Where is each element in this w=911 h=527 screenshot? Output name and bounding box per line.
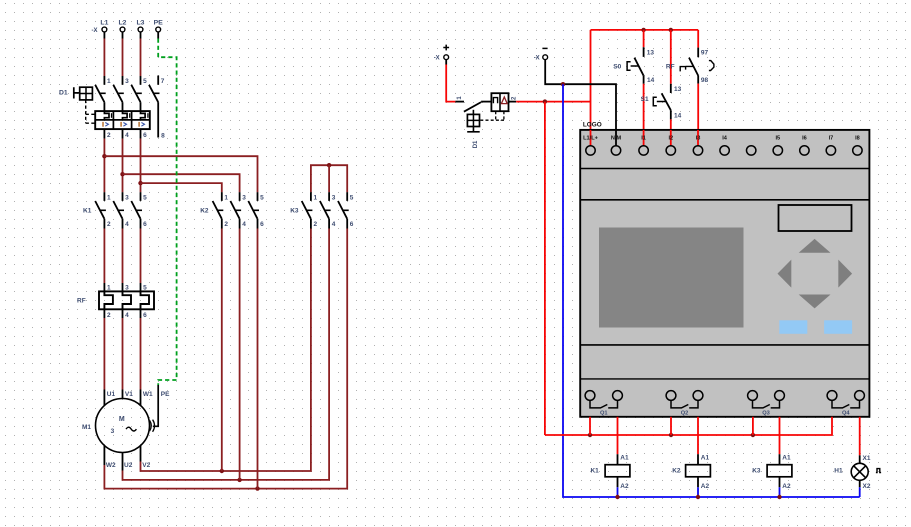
wire K2 pole6 drop: [257, 229, 259, 489]
wire Q3 common drop: [752, 417, 754, 435]
junction L3 tap: [138, 181, 142, 185]
svg-text:PE: PE: [154, 20, 164, 27]
wire L2 tap to K2 pole 3: [123, 174, 240, 192]
wire K2 pole4 drop: [239, 229, 241, 480]
overload RF pin 1: [104, 283, 111, 292]
contactor K2 contact pole 3-4: [230, 192, 246, 228]
motor M1 terminal PE: [161, 391, 170, 398]
wire - to N/M: [545, 60, 616, 146]
svg-text:K2: K2: [200, 207, 209, 214]
junction K2 return: [696, 495, 700, 499]
svg-text:I1: I1: [641, 136, 646, 142]
junction L1 tap: [102, 154, 106, 158]
contactor K1 label: [83, 207, 92, 214]
wire star bridge over K3: [311, 165, 347, 192]
wire K1 to RF pole 3: [122, 229, 124, 284]
svg-text:A2: A2: [782, 483, 791, 490]
junction V2-K2: [220, 469, 224, 473]
svg-text:RF: RF: [77, 298, 86, 305]
pushbutton S1: [641, 86, 682, 120]
junction W2-K2: [255, 486, 259, 490]
svg-text:3: 3: [242, 194, 246, 201]
mechanical link D1 aux: [480, 111, 504, 120]
junction Q3 common: [751, 433, 755, 437]
overload RF heater element: [104, 291, 113, 309]
svg-text:6: 6: [143, 221, 147, 228]
svg-text:L3: L3: [137, 20, 145, 27]
wire control top bus: [591, 29, 699, 31]
label LOGO: [583, 122, 602, 129]
wire H1 lamp return: [859, 480, 861, 497]
svg-text:14: 14: [647, 77, 655, 84]
svg-text:5: 5: [143, 194, 147, 201]
contactor K1 contact pole 1-2: [95, 192, 111, 228]
wire S1 to I2: [670, 119, 672, 146]
svg-text:5: 5: [260, 194, 264, 201]
PLC cursor key right: [838, 260, 852, 288]
svg-text:A1: A1: [701, 455, 710, 462]
pushbutton S0: [613, 49, 654, 83]
overload relay RF box: [99, 291, 154, 309]
breaker D1 pin 6: [141, 129, 148, 139]
wire + to D1 aux: [446, 60, 455, 102]
svg-text:K3: K3: [752, 468, 761, 475]
breaker D1 pin 2: [104, 129, 111, 139]
breaker D1 contact pole 5: [131, 78, 147, 111]
wire L3 to D1: [140, 32, 142, 85]
svg-text:1: 1: [314, 194, 318, 201]
junction K3 return: [777, 495, 781, 499]
wire L1/L+ riser: [590, 30, 592, 146]
svg-text:A2: A2: [620, 483, 629, 490]
junction control feed: [543, 99, 547, 103]
motor M1 terminal U2: [123, 453, 133, 471]
breaker D1 aux mechanism: [467, 110, 480, 132]
wire K3 coil feed: [779, 417, 781, 465]
svg-text:3: 3: [125, 78, 129, 85]
breaker D1 contact pole 1: [95, 78, 111, 111]
PLC relay output Q3: [748, 391, 785, 417]
svg-text:I8: I8: [855, 136, 860, 142]
svg-text:97: 97: [701, 50, 709, 57]
motor M1 terminal W1: [141, 390, 154, 406]
breaker D1 contact pole 3: [113, 78, 129, 111]
wire W2 to K2/K3: [104, 229, 347, 489]
wire bus to RF contact: [697, 30, 699, 57]
wire PE (green dashed): [158, 32, 176, 385]
svg-text:6: 6: [143, 132, 147, 139]
svg-text:H1: H1: [834, 468, 843, 475]
svg-text:I2: I2: [668, 136, 673, 142]
svg-text:4: 4: [125, 132, 129, 139]
PLC ESC key: [779, 320, 807, 334]
svg-text:2: 2: [107, 221, 111, 228]
motor M1 terminal U1: [104, 390, 115, 406]
PLC relay output Q1: [585, 391, 622, 417]
wire output bus (red): [545, 417, 832, 435]
svg-text:W1: W1: [143, 391, 153, 398]
svg-text:1: 1: [107, 78, 111, 85]
breaker D1 aux trip box: [491, 93, 508, 111]
wire RF to motor 2: [103, 318, 105, 390]
svg-text:3: 3: [125, 194, 129, 201]
PLC cursor key left: [778, 260, 792, 288]
contactor coil K3: [752, 455, 792, 491]
svg-text:L1/L+: L1/L+: [583, 136, 598, 142]
svg-text:5: 5: [350, 194, 354, 201]
wire Q2 common drop: [670, 417, 672, 435]
PLC relay output Q2: [666, 391, 703, 417]
svg-text:3: 3: [332, 194, 336, 201]
motor M1 body: [96, 399, 150, 453]
svg-text:S1: S1: [641, 96, 649, 103]
svg-text:Q1: Q1: [600, 410, 608, 416]
overload RF heater element: [123, 291, 132, 309]
wire U2 to K2/K3: [123, 229, 330, 480]
svg-text:I6: I6: [802, 136, 807, 142]
PLC cursor key down: [799, 295, 831, 309]
overload RF pin 2: [104, 309, 111, 319]
svg-text:Q3: Q3: [762, 410, 770, 416]
svg-text:L2: L2: [119, 20, 127, 27]
label -X (left feeder): [92, 28, 98, 34]
wire K1 to RF pole 1: [103, 229, 105, 284]
contactor K1 contact pole 3-4: [113, 192, 129, 228]
svg-text:RF: RF: [666, 64, 675, 71]
svg-text:LOGO: LOGO: [583, 122, 602, 129]
wire K3 coil return: [779, 477, 781, 497]
wire M drop (blue): [563, 84, 860, 497]
svg-text:1: 1: [224, 194, 228, 201]
wire L3 tap to K2 pole 1: [141, 183, 222, 192]
wire L1 to D1: [103, 32, 105, 85]
breaker D1 auxiliary contact: [455, 96, 491, 112]
wire S0 to I1: [643, 84, 645, 146]
svg-text:M1: M1: [82, 424, 91, 431]
PLC LCD display: [599, 228, 744, 328]
svg-text:X1: X1: [863, 455, 871, 462]
junction S0 branch: [641, 28, 645, 32]
svg-text:K1: K1: [590, 468, 599, 475]
svg-text:A1: A1: [620, 455, 629, 462]
svg-text:6: 6: [143, 312, 147, 319]
overload RF NO contact 97-98: [666, 50, 714, 84]
contactor K3 contact pole 3-4: [320, 192, 336, 228]
overload RF heater element: [141, 291, 150, 309]
svg-text:S0: S0: [613, 64, 621, 71]
wire K2 coil return: [697, 477, 699, 497]
lamp H1: [834, 455, 881, 490]
label D1 (aux): [473, 140, 479, 148]
PLC label window: [779, 205, 852, 231]
wire RF to I3: [697, 84, 699, 146]
wire K1 to RF pole 5: [140, 229, 142, 284]
svg-text:13: 13: [674, 86, 682, 93]
svg-text:M: M: [119, 416, 125, 423]
contactor K2 contact pole 1-2: [213, 192, 229, 228]
svg-text:14: 14: [674, 113, 682, 120]
junction K1 return: [615, 495, 619, 499]
motor M1 terminal V1: [123, 390, 134, 399]
PLC LOGO module body: [580, 130, 869, 417]
overload RF pin 3: [123, 283, 130, 292]
contactor K3 contact pole 5-6: [338, 192, 354, 228]
svg-text:D1: D1: [59, 90, 68, 97]
svg-text:L1: L1: [100, 20, 108, 27]
junction M branch: [561, 82, 565, 86]
magnetic trip element D1 |>: [139, 122, 144, 127]
wire H1 lamp feed: [859, 417, 861, 464]
contactor K3 contact pole 1-2: [302, 192, 318, 228]
magnetic trip element D1 |>: [103, 122, 108, 127]
svg-text:V2: V2: [142, 462, 150, 469]
svg-text:A1: A1: [782, 455, 791, 462]
wire D1 aux to node: [509, 101, 591, 103]
svg-text:K2: K2: [672, 468, 681, 475]
svg-text:Q2: Q2: [681, 410, 689, 416]
motor M1 PE frame connection: [150, 385, 159, 432]
svg-text:3: 3: [111, 428, 115, 435]
svg-text:7: 7: [161, 78, 165, 85]
svg-text:U1: U1: [107, 391, 116, 398]
PLC OK key: [824, 320, 852, 334]
wire L1 phase D1 to K1: [103, 139, 105, 193]
svg-text:8: 8: [161, 132, 165, 139]
svg-text:-X: -X: [92, 28, 98, 34]
svg-text:I7: I7: [829, 136, 834, 142]
wire K1 coil return: [617, 477, 619, 497]
svg-text:5: 5: [143, 78, 147, 85]
overload RF pin 4: [123, 309, 130, 319]
svg-text:I5: I5: [775, 136, 780, 142]
svg-text:V1: V1: [125, 391, 133, 398]
wire K1 coil feed: [617, 417, 619, 465]
svg-text:13: 13: [647, 49, 655, 56]
wire L3 phase D1 to K1: [140, 139, 142, 193]
terminal -X L2: [119, 20, 127, 32]
svg-text:X2: X2: [863, 483, 871, 490]
wire K2 pole2 drop: [221, 229, 223, 472]
wire L2 phase D1 to K1: [122, 139, 124, 193]
contactor K2 label: [200, 207, 209, 214]
svg-text:2: 2: [314, 221, 318, 228]
motor M1 terminal V2: [141, 446, 151, 469]
junction L2 tap: [120, 172, 124, 176]
wire Q1 common drop: [589, 417, 591, 435]
terminal -X PE: [154, 20, 164, 32]
motor M1 terminal W2: [104, 446, 116, 469]
breaker D1 contact pole 7: [149, 76, 165, 140]
thermal overload element D1: [104, 111, 111, 120]
svg-text:4: 4: [242, 221, 246, 228]
svg-text:4: 4: [125, 221, 129, 228]
pin 2 D1 aux: [512, 96, 518, 100]
junction Q2 common: [669, 433, 673, 437]
junction star point: [327, 163, 331, 192]
wire V2 to K2/K3: [141, 229, 311, 472]
PLC cursor key up: [799, 239, 831, 253]
svg-text:N/M: N/M: [611, 136, 622, 142]
overload RF pin 6: [141, 309, 148, 319]
svg-text:D1: D1: [473, 140, 479, 148]
motor M1 label: [82, 424, 91, 431]
terminal -X + (L+): [434, 45, 449, 62]
svg-text:2: 2: [107, 312, 111, 319]
junction U2-K2: [237, 478, 241, 482]
wire RF to motor 6: [140, 318, 142, 390]
svg-text:98: 98: [701, 77, 709, 84]
breaker D1 trip unit box: [95, 111, 150, 129]
overload relay RF label: [77, 298, 86, 305]
svg-text:Q4: Q4: [842, 410, 850, 416]
PLC input terminals L1/L+ N/M I1-I8: [583, 136, 862, 155]
contactor K2 contact pole 5-6: [248, 192, 264, 228]
wire L2 to D1: [122, 32, 124, 85]
junction Q1 common: [588, 433, 592, 437]
wire L1 tap to K2 pole 5: [104, 156, 257, 192]
wire bus to S1: [670, 30, 672, 93]
svg-text:K1: K1: [83, 207, 92, 214]
overload RF pin 5: [141, 283, 148, 292]
contactor K1 contact pole 5-6: [131, 192, 147, 228]
svg-text:I3: I3: [696, 136, 701, 142]
svg-text:1: 1: [107, 194, 111, 201]
svg-text:4: 4: [332, 221, 336, 228]
thermal overload element D1: [141, 111, 148, 120]
contactor K3 label: [290, 207, 299, 214]
breaker D1 operating mechanism: [59, 87, 92, 100]
svg-text:4: 4: [125, 312, 129, 319]
terminal -X - (M): [534, 48, 548, 61]
wire stubs into input terminals: [591, 130, 699, 146]
wire RF to motor 4: [122, 318, 124, 390]
svg-text:K3: K3: [290, 207, 299, 214]
svg-text:2: 2: [107, 132, 111, 139]
mechanical link D1: [86, 100, 95, 123]
thermal overload element D1: [123, 111, 130, 120]
svg-text:6: 6: [350, 221, 354, 228]
wire feed drop to output bus: [544, 102, 546, 435]
svg-text:PE: PE: [161, 391, 170, 398]
PLC relay output Q4: [827, 391, 864, 417]
terminal -X L3: [137, 20, 145, 32]
wire K2 coil feed: [697, 417, 699, 465]
wire bus to S0: [643, 30, 645, 57]
svg-text:W2: W2: [106, 462, 116, 469]
svg-text:A2: A2: [701, 483, 710, 490]
contactor coil K2: [672, 455, 710, 491]
junction S1 branch: [669, 28, 673, 32]
terminal -X L1: [100, 20, 108, 32]
svg-text:6: 6: [260, 221, 264, 228]
contactor coil K1: [590, 455, 629, 491]
svg-text:U2: U2: [124, 462, 133, 469]
magnetic trip element D1 |>: [121, 122, 126, 127]
svg-text:2: 2: [224, 221, 228, 228]
svg-text:-X: -X: [434, 56, 440, 62]
svg-text:-X: -X: [534, 56, 540, 62]
breaker D1 pin 4: [123, 129, 130, 139]
